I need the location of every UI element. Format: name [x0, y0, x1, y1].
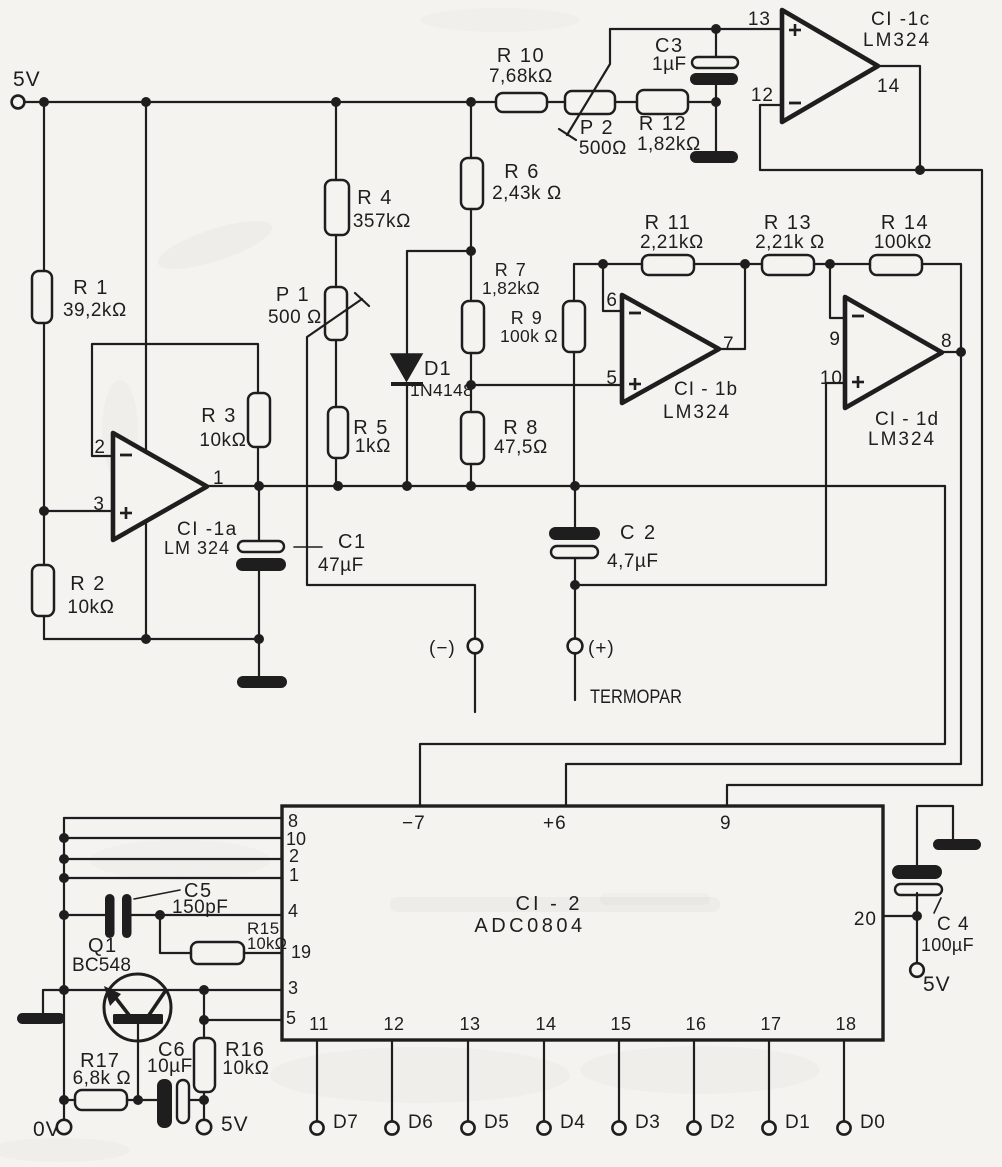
terminal minus input	[468, 639, 483, 654]
svg-text:D0: D0	[860, 1112, 885, 1133]
svg-text:Q1: Q1	[88, 935, 118, 957]
junction pin4 R15	[155, 910, 165, 920]
svg-text:18: 18	[835, 1014, 856, 1034]
wire bus to R17	[64, 1099, 75, 1101]
wire CI-1b output	[719, 264, 745, 349]
junction bus pin4	[59, 910, 69, 920]
wire R1 to R2	[43, 323, 45, 565]
wire output rail pin1	[207, 485, 945, 487]
ground bar below C1	[237, 676, 287, 688]
capacitor C1	[236, 531, 367, 576]
svg-text:P 1: P 1	[276, 284, 310, 306]
svg-text:5: 5	[606, 368, 618, 389]
svg-text:D5: D5	[484, 1112, 509, 1133]
wire R12 to C3 node	[688, 101, 716, 103]
junction pin3 node	[39, 506, 49, 516]
junction rail C2	[570, 481, 580, 491]
svg-text:R 4: R 4	[357, 187, 393, 209]
svg-text:C 2: C 2	[620, 522, 657, 544]
junction pin5 node	[466, 380, 476, 390]
trimpot P1 body	[268, 284, 347, 340]
junction Q1 R17	[133, 1095, 143, 1105]
pointer line C1	[294, 546, 322, 548]
svg-text:5: 5	[286, 1008, 296, 1028]
wire C2 top lead	[574, 486, 576, 527]
IC U2 CI-2 ADC0804 box	[282, 806, 883, 1040]
wire data pin 14	[543, 1040, 545, 1121]
terminal D4	[537, 1121, 550, 1134]
wire plus lead below	[574, 653, 576, 700]
junction R16 C6 5V	[199, 1095, 209, 1105]
svg-text:ADC0804: ADC0804	[474, 915, 585, 937]
wire C3 upper lead	[715, 29, 717, 57]
capacitor C6	[147, 1039, 193, 1128]
wire D1 anode to rail	[406, 384, 408, 486]
svg-text:LM324: LM324	[863, 30, 931, 51]
wire D1 cathode up	[407, 251, 471, 354]
ground bar pin3	[17, 1013, 65, 1024]
ground bar below C3	[690, 151, 738, 163]
terminal D0	[837, 1121, 850, 1134]
terminal 0V	[57, 1120, 71, 1134]
resistor R1	[32, 271, 127, 323]
svg-text:R 1: R 1	[73, 277, 109, 299]
svg-text:R 12: R 12	[639, 113, 687, 135]
svg-text:LM 324: LM 324	[164, 538, 230, 558]
wire R7 to R8	[470, 353, 472, 412]
svg-text:5V: 5V	[923, 973, 951, 996]
svg-text:R 8: R 8	[503, 417, 539, 439]
svg-text:R 13: R 13	[764, 212, 812, 234]
junction pin13/C3	[711, 24, 721, 34]
trimpot P2 body	[565, 91, 627, 159]
svg-text:100kΩ: 100kΩ	[874, 232, 932, 253]
svg-text:8: 8	[941, 331, 953, 352]
junction rail R4	[331, 97, 341, 107]
wire CI-1a feedback loop	[92, 344, 258, 456]
wire ADC pin8	[64, 817, 282, 819]
svg-text:CI - 1b: CI - 1b	[674, 379, 738, 400]
wire data pin 15	[618, 1040, 620, 1121]
svg-text:+6: +6	[543, 813, 567, 834]
wire C3 to ground	[715, 85, 717, 155]
svg-text:1,82kΩ: 1,82kΩ	[637, 134, 701, 155]
wire pin 9 input	[830, 264, 845, 318]
svg-text:1: 1	[289, 865, 299, 885]
junction rail R8	[466, 481, 476, 491]
wiper tick P1	[355, 293, 369, 306]
wire CI-1d output	[942, 351, 961, 353]
wire R3 bottom	[257, 447, 259, 486]
wire C1 top lead	[258, 486, 260, 541]
svg-text:2,21k Ω: 2,21k Ω	[755, 232, 825, 253]
svg-text:8: 8	[288, 811, 298, 831]
op-amp U1a CI-1a	[113, 433, 207, 540]
junction rail C1	[254, 481, 264, 491]
svg-text:(−): (−)	[429, 638, 456, 659]
svg-text:D4: D4	[560, 1112, 585, 1133]
svg-text:CI -1c: CI -1c	[871, 9, 931, 30]
wire data pin 12	[391, 1040, 393, 1121]
svg-text:39,2kΩ: 39,2kΩ	[63, 300, 127, 321]
wire ADC pin4 left	[64, 914, 106, 916]
svg-text:10: 10	[820, 368, 843, 389]
svg-text:6,8k Ω: 6,8k Ω	[73, 1068, 132, 1089]
wire minus lead below	[474, 653, 476, 712]
resistor R5	[328, 407, 391, 458]
wire ADC pin19	[244, 952, 282, 954]
wire R8 bottom	[470, 464, 472, 486]
wire R15 to pin4 node	[160, 915, 191, 953]
junction rail x146	[141, 97, 151, 107]
junction bottom x146	[141, 634, 151, 644]
svg-text:150pF: 150pF	[172, 897, 228, 918]
terminal plus input	[568, 639, 583, 654]
wire P1 bottom to R5	[335, 340, 337, 407]
terminal D3	[612, 1121, 625, 1134]
wire R4 top lead	[335, 102, 337, 180]
resistor R16	[194, 1038, 270, 1092]
wire ADC pin3	[43, 990, 282, 1016]
terminal D7	[310, 1121, 323, 1134]
svg-text:47µF: 47µF	[318, 555, 364, 576]
svg-text:D2: D2	[710, 1112, 735, 1133]
op-amp U1d CI-1d	[845, 297, 942, 408]
wire C1 to ground	[258, 639, 260, 678]
capacitor C4	[892, 865, 974, 955]
resistor R11	[640, 212, 704, 275]
svg-text:2,43k Ω: 2,43k Ω	[492, 183, 562, 204]
svg-text:11: 11	[309, 1014, 329, 1034]
junction R13 R14 pin9	[825, 259, 835, 269]
junction rail R5	[333, 481, 343, 491]
resistor R8	[461, 412, 548, 464]
svg-text:6: 6	[606, 290, 618, 311]
svg-text:1kΩ: 1kΩ	[355, 436, 391, 457]
svg-text:3: 3	[288, 978, 298, 998]
wire CI-1c out to ADC pin9	[727, 170, 982, 806]
pointer line C5	[134, 890, 180, 899]
wire P2 wiper	[567, 29, 610, 135]
wire pin 10 input	[575, 383, 845, 585]
svg-text:BC548: BC548	[72, 955, 131, 976]
terminal D6	[385, 1121, 398, 1134]
svg-text:C1: C1	[338, 531, 367, 553]
svg-text:5V: 5V	[13, 68, 41, 91]
resistor R10	[489, 45, 553, 112]
wire C6 to R16 node	[189, 1099, 204, 1101]
svg-text:13: 13	[459, 1014, 480, 1034]
wire R16 bottom lead	[203, 1092, 205, 1100]
junction rail R1	[39, 97, 49, 107]
terminal 5V right	[910, 963, 924, 977]
pointer line C4	[934, 898, 941, 913]
svg-text:10kΩ: 10kΩ	[67, 597, 114, 618]
wire R11 to R13	[694, 263, 762, 265]
junction pin3 R16	[199, 985, 209, 995]
resistor R2	[32, 565, 115, 618]
wire to 5V bottom	[203, 1100, 205, 1120]
svg-text:4: 4	[288, 901, 298, 921]
wire data pin 17	[768, 1040, 770, 1121]
wire R9 top	[574, 264, 642, 301]
op-amp U1b CI-1b	[622, 295, 719, 403]
wire pin 3 input	[44, 510, 113, 512]
svg-text:R 10: R 10	[497, 45, 545, 67]
svg-text:100k Ω: 100k Ω	[500, 326, 558, 346]
svg-text:13: 13	[748, 9, 771, 30]
svg-text:R 14: R 14	[881, 212, 929, 234]
junction pin5 R16	[199, 1015, 209, 1025]
svg-text:500 Ω: 500 Ω	[268, 307, 322, 328]
wire node8 to ADC pin6	[566, 352, 961, 806]
svg-text:14: 14	[877, 76, 900, 97]
junction rail R6	[466, 97, 476, 107]
svg-text:2: 2	[289, 846, 299, 866]
junction pin20 C4	[912, 911, 922, 921]
svg-text:7: 7	[723, 334, 735, 355]
svg-text:R 7: R 7	[495, 260, 528, 280]
wire R10 to P2	[547, 101, 565, 103]
svg-text:3: 3	[93, 494, 105, 515]
resistor R12	[637, 90, 701, 155]
svg-text:C 4: C 4	[937, 914, 970, 935]
svg-text:D3: D3	[635, 1112, 660, 1133]
wire C4 top to ground	[917, 806, 953, 865]
terminal 5V bottom	[197, 1120, 211, 1134]
wire ADC pin2	[64, 858, 282, 860]
wire bottom ground rail	[44, 638, 259, 640]
wire pin 6 input	[603, 264, 622, 311]
svg-text:R 3: R 3	[201, 405, 237, 427]
junction bus pin1	[59, 873, 69, 883]
wire left bus vertical	[63, 818, 65, 1120]
ground bar C4	[933, 839, 981, 850]
terminal D2	[687, 1121, 700, 1134]
wire P2 to R12	[615, 101, 637, 103]
svg-text:5V: 5V	[221, 1113, 249, 1136]
svg-text:4,7µF: 4,7µF	[607, 551, 658, 572]
junction C3 R12 node	[711, 97, 721, 107]
svg-text:D1: D1	[785, 1112, 810, 1133]
svg-text:10kΩ: 10kΩ	[247, 935, 287, 953]
wire CI-1c output feedback	[760, 66, 920, 170]
svg-text:500Ω: 500Ω	[579, 138, 627, 159]
wire R17 to C6	[127, 1099, 158, 1101]
wire R13 to R14	[814, 263, 870, 265]
svg-text:16: 16	[685, 1014, 706, 1034]
svg-text:100µF: 100µF	[921, 935, 974, 955]
resistor R3	[199, 393, 270, 451]
svg-text:D1: D1	[424, 358, 452, 380]
svg-text:R 6: R 6	[504, 161, 540, 183]
capacitor C2	[549, 522, 658, 572]
svg-text:2,21kΩ: 2,21kΩ	[640, 232, 704, 253]
junction rail D1	[402, 481, 412, 491]
junction node8	[956, 347, 966, 357]
terminal D5	[461, 1121, 474, 1134]
svg-text:15: 15	[610, 1014, 631, 1034]
wire data pin 18	[843, 1040, 845, 1121]
wire data pin 11	[316, 1040, 318, 1121]
svg-text:1,82kΩ: 1,82kΩ	[482, 278, 540, 298]
svg-text:CI - 1d: CI - 1d	[875, 409, 939, 430]
svg-text:10µF: 10µF	[147, 1056, 193, 1077]
svg-text:R 11: R 11	[645, 212, 692, 234]
junction D1 node	[466, 246, 476, 256]
svg-text:20: 20	[854, 909, 877, 930]
wire R16 top lead	[203, 990, 205, 1038]
svg-text:10kΩ: 10kΩ	[222, 1058, 269, 1079]
diode D1 1N4148	[391, 354, 473, 400]
wire C1 bottom lead	[258, 571, 260, 639]
svg-text:357kΩ: 357kΩ	[353, 211, 411, 232]
svg-text:2: 2	[94, 437, 106, 458]
resistor R13	[755, 212, 825, 275]
svg-text:7,68kΩ: 7,68kΩ	[489, 66, 553, 87]
wire data pin 13	[467, 1040, 469, 1121]
wire ADC pin1	[64, 877, 282, 879]
capacitor C5	[105, 880, 228, 938]
wire R1 top lead	[43, 102, 45, 271]
junction bus pin2	[59, 854, 69, 864]
terminal D1	[762, 1121, 775, 1134]
wire C4 bottom lead	[916, 893, 918, 916]
wire ADC pin10	[64, 837, 282, 839]
svg-text:LM324: LM324	[663, 402, 731, 423]
wire vertical x146	[145, 102, 147, 639]
wire ADC pin20	[883, 915, 917, 917]
wire R2 bottom	[43, 616, 45, 639]
resistor R17	[73, 1050, 132, 1110]
svg-text:12: 12	[383, 1014, 404, 1034]
svg-text:9: 9	[720, 813, 732, 834]
wire rail to ADC pin7	[420, 486, 945, 806]
svg-text:47,5Ω: 47,5Ω	[494, 437, 548, 458]
capacitor C3	[652, 35, 738, 85]
junction bus pin10	[59, 833, 69, 843]
wire wiper to pin 13	[610, 28, 782, 30]
op-amp U1c CI-1c	[782, 10, 878, 122]
resistor R14	[870, 212, 932, 275]
wire R9 bottom	[573, 352, 575, 486]
wire C2 bottom lead	[574, 558, 576, 639]
junction C2 pin10	[570, 580, 580, 590]
resistor R4	[325, 180, 411, 235]
svg-text:1N4148: 1N4148	[410, 380, 473, 400]
wire R6 to R7	[470, 209, 472, 301]
transistor Q1 BC548	[72, 935, 171, 1041]
resistor R9	[500, 301, 585, 352]
svg-text:10kΩ: 10kΩ	[199, 430, 246, 451]
junction CI-1c out	[915, 165, 925, 175]
svg-text:R 9: R 9	[511, 308, 544, 328]
svg-text:D7: D7	[333, 1112, 358, 1133]
wire pin20 to 5V	[916, 916, 918, 963]
wire ADC pin4 right	[131, 914, 282, 916]
junction R11 R13	[740, 259, 750, 269]
svg-text:R 2: R 2	[70, 573, 106, 595]
wiper tick P2	[559, 129, 576, 140]
junction bus R17	[59, 1095, 69, 1105]
svg-text:17: 17	[760, 1014, 781, 1034]
wire data pin 16	[693, 1040, 695, 1121]
svg-text:−7: −7	[402, 813, 426, 834]
junction bottom C1	[254, 634, 264, 644]
wire R4 to P1	[335, 235, 337, 287]
svg-text:12: 12	[751, 85, 774, 106]
wire ADC pin5	[204, 1019, 282, 1021]
wire 5V top rail	[25, 101, 496, 103]
svg-text:19: 19	[291, 942, 311, 962]
wire R6 top lead	[470, 102, 472, 158]
resistor R6	[461, 158, 562, 209]
resistor R15	[191, 919, 287, 964]
svg-text:CI -1a: CI -1a	[177, 519, 238, 540]
svg-text:14: 14	[535, 1014, 556, 1034]
svg-text:TERMOPAR: TERMOPAR	[590, 687, 682, 708]
junction R9 R11 pin6	[598, 259, 608, 269]
svg-text:(+): (+)	[588, 638, 615, 659]
svg-text:CI - 2: CI - 2	[516, 893, 583, 915]
wire pin 5 input	[471, 384, 622, 386]
wire R5 bottom	[335, 458, 337, 486]
svg-text:9: 9	[829, 329, 841, 350]
svg-text:1µF: 1µF	[652, 54, 687, 75]
svg-text:0V: 0V	[33, 1118, 61, 1141]
wire Q1 base lead down	[137, 1023, 139, 1100]
power terminal 5V top-left	[12, 68, 41, 108]
svg-text:D6: D6	[408, 1112, 433, 1133]
junction pin3 bus	[59, 985, 69, 995]
svg-text:LM324: LM324	[868, 429, 936, 450]
svg-text:P 2: P 2	[580, 117, 614, 139]
resistor R7	[462, 260, 540, 353]
wire R14 to node8	[922, 264, 961, 352]
wire P1 wiper arm	[307, 299, 475, 639]
